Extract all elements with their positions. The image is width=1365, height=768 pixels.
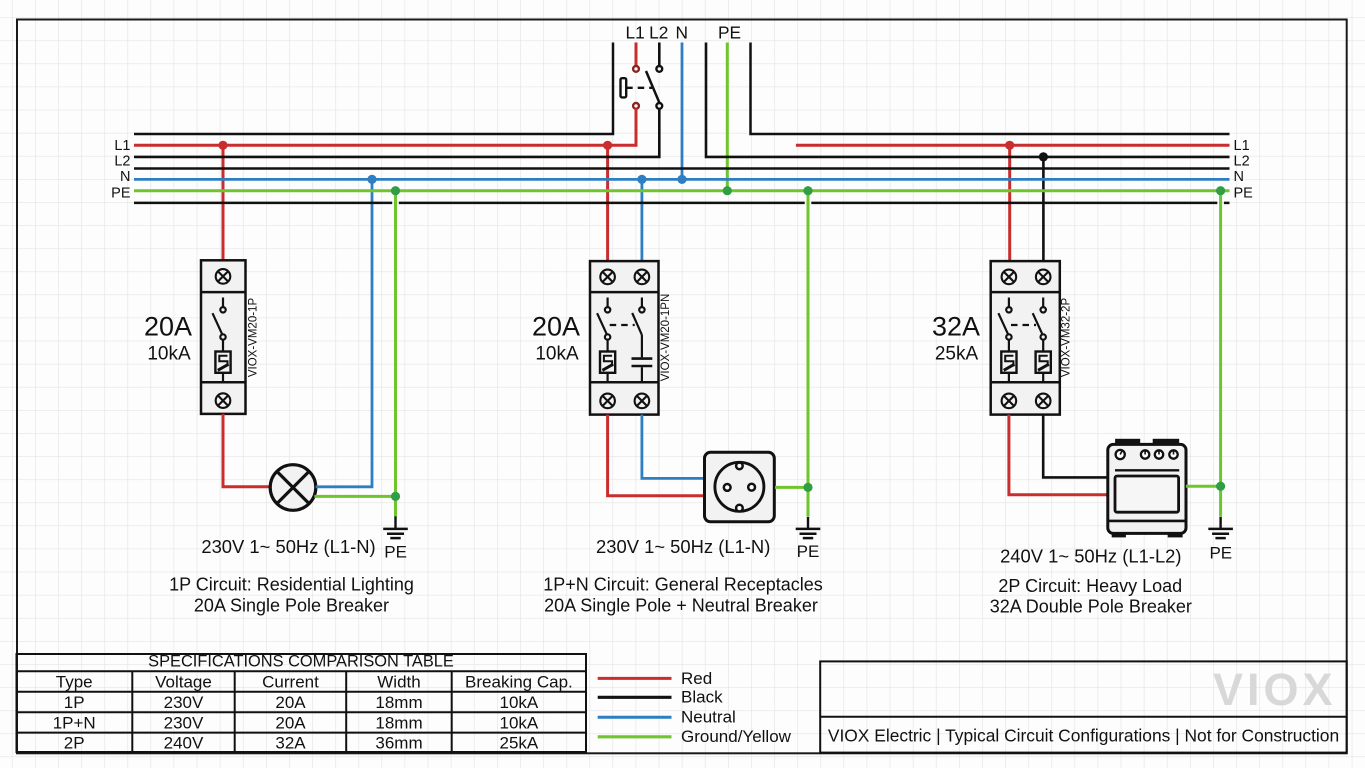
wire L2 bus left (black) [134,109,659,157]
junction PE to circuit 2 ground [803,186,812,195]
wire L2 supply drop (black) [658,43,661,66]
wire PE bus (green, full width) [134,189,1230,192]
svg-text:L2: L2 [649,23,668,43]
wire black rail lower (full width) [134,202,392,205]
wire PE drop circuit 1 (green) [394,191,397,517]
svg-text:2P: 2P [64,734,85,753]
breaker CB1 bottom section divider [201,381,246,384]
lamp E1 [270,465,316,511]
main isolator switch Q0 pole L2 terminal top [656,66,662,72]
breaker CB3 bottom section divider [991,381,1060,384]
wire stove to PE (green) [1186,485,1221,488]
wire CB1 output to lamp (red) [223,414,271,487]
svg-text:1P: 1P [64,693,85,712]
svg-text:36mm: 36mm [375,734,422,753]
wire L1 bus right (red) [796,144,1230,147]
table frame [17,654,587,752]
breaker CB2 body [590,261,659,415]
svg-text:Width: Width [377,673,420,692]
wire N supply drop (blue) [681,43,684,180]
legend swatch Black [598,696,672,699]
svg-text:18mm: 18mm [375,693,422,712]
breaker CB2 terminal top N [635,270,650,285]
ground symbol circuit 2 [796,517,821,538]
junction PE supply entry [723,186,732,195]
svg-text:VIOX Electric | Typical Circui: VIOX Electric | Typical Circuit Configur… [828,726,1339,746]
svg-text:10kA: 10kA [147,344,191,365]
wire lamp to PE (green) [314,495,395,498]
svg-text:10kA: 10kA [500,693,539,712]
junction PE to circuit 1 ground [391,186,400,195]
svg-text:N: N [1234,169,1244,185]
title block frame [820,661,1346,752]
svg-text:230V 1~ 50Hz (L1-N): 230V 1~ 50Hz (L1-N) [201,536,375,557]
svg-text:10kA: 10kA [535,344,579,365]
svg-text:L1: L1 [114,138,130,154]
legend swatch Red [598,677,672,680]
svg-text:20A: 20A [275,713,306,732]
svg-text:PE: PE [111,186,131,202]
breaker CB2 bottom section divider [590,381,659,384]
breaker CB3 pole linkage (dashed) [1011,324,1036,326]
svg-text:240V 1~ 50Hz (L1-L2): 240V 1~ 50Hz (L1-L2) [1000,546,1181,567]
junction socket PE tee [803,483,812,492]
wire black rail upper-right segment [751,43,1230,135]
junction N supply entry [677,175,686,184]
breaker CB3 terminal bottom L2 [1036,394,1051,409]
breaker CB2 N-pole contact mechanism [632,298,653,383]
legend swatch Ground/Yellow [598,735,672,738]
svg-text:Type: Type [56,673,93,692]
wire L1 drop to CB3 (red) [1008,145,1011,261]
wire L2 bus right (black) [706,43,1230,157]
breaker CB1 contact mechanism [213,298,226,352]
svg-text:32A: 32A [275,734,306,753]
svg-text:L1: L1 [625,23,644,43]
breaker CB1 top section divider [201,291,246,294]
breaker CB1 body [201,260,246,414]
wire black rail upper-left segment [134,43,613,135]
svg-text:N: N [120,169,130,185]
svg-text:20A: 20A [532,312,580,342]
breaker CB2 terminal bottom L [600,394,615,409]
svg-text:20A Single Pole Breaker: 20A Single Pole Breaker [194,596,389,616]
svg-text:25kA: 25kA [500,734,539,753]
svg-text:1P+N: 1P+N [53,713,96,732]
wire CB2 N output to socket (blue) [642,415,705,479]
wire L1 drop to CB2 (red) [606,145,609,261]
breaker CB1 terminal bottom [216,393,231,408]
svg-text:10kA: 10kA [500,713,539,732]
svg-text:230V 1~ 50Hz (L1-N): 230V 1~ 50Hz (L1-N) [596,536,770,557]
svg-text:230V: 230V [164,693,204,712]
main isolator switch Q0 pole L1 terminal top [633,66,639,72]
svg-text:Breaking Cap.: Breaking Cap. [465,673,573,692]
junction stove PE tee [1216,482,1225,491]
main isolator switch Q0 linkage (dashed) [626,87,652,89]
svg-text:PE: PE [797,542,820,561]
wire N drop to CB2 (blue) [641,179,644,261]
stove E3 knobs [1116,450,1178,459]
breaker CB2 top section divider [590,291,659,294]
svg-text:VIOX-VM20-1P: VIOX-VM20-1P [248,298,260,378]
wire N bus (blue, full width) [134,178,1230,181]
table header row [56,673,573,692]
table row 2P [64,734,539,753]
svg-text:20A: 20A [144,312,192,342]
svg-text:SPECIFICATIONS COMPARISON TABL: SPECIFICATIONS COMPARISON TABLE [148,653,454,671]
wire CB3 L2 output to stove (black) [1043,415,1108,478]
breaker CB3 body [991,261,1060,415]
stove E3 drawer line [1108,520,1186,523]
svg-text:Current: Current [262,673,319,692]
breaker CB2 terminal top L [600,270,615,285]
legend swatch Neutral [598,716,672,719]
svg-text:PE: PE [718,23,741,43]
breaker CB2 pole linkage (dashed) [610,324,635,326]
junction L1 to breaker CB3 [1005,141,1014,150]
svg-text:L2: L2 [1234,153,1250,169]
main isolator switch Q0 pole L2 terminal bottom [656,103,662,109]
wire L1 drop to CB1 (red) [222,145,225,260]
breaker CB3 terminal bottom L1 [1002,394,1017,409]
wire socket to PE (green) [775,486,808,489]
socket X1 (schuko receptacle) [705,452,775,522]
svg-text:2P Circuit: Heavy Load: 2P Circuit: Heavy Load [998,576,1182,596]
stove E3 body [1108,439,1186,536]
ground symbol circuit 3 [1208,517,1233,538]
breaker CB3 pole-1 trip unit [1001,352,1016,383]
breaker CB2 terminal bottom N [635,394,650,409]
svg-text:20A: 20A [275,693,306,712]
svg-text:L1: L1 [1234,138,1250,154]
ground symbol circuit 1 [383,516,408,538]
stove E3 oven door [1115,476,1179,512]
breaker CB1 thermal-magnetic trip unit [215,352,230,383]
main isolator switch Q0 handle [621,78,627,97]
breaker CB1 terminal top [216,269,231,284]
junction N to breaker CB2 [637,175,646,184]
svg-text:1P Circuit: Residential Lighti: 1P Circuit: Residential Lighting [169,575,414,595]
svg-text:N: N [676,23,688,43]
svg-text:PE: PE [1234,186,1254,202]
svg-text:1P+N Circuit: General Receptac: 1P+N Circuit: General Receptacles [543,575,823,595]
breaker CB3 pole-2 trip unit [1036,352,1051,383]
breaker CB3 terminal top L1 [1002,270,1017,285]
breaker CB3 terminal top L2 [1036,270,1051,285]
svg-text:230V: 230V [164,713,204,732]
wire CB2 L output to socket (red) [608,415,705,496]
wire black rail middle (full width) [134,167,1230,170]
junction L2 to breaker CB3 [1039,152,1048,161]
breaker CB2 L-pole trip unit [600,352,615,383]
svg-text:Voltage: Voltage [155,673,212,692]
wire L2 drop to CB3 (black) [1042,157,1045,261]
stove E3 cooktop divider [1115,469,1179,471]
svg-text:18mm: 18mm [375,713,422,732]
svg-text:25kA: 25kA [935,344,979,365]
svg-text:Ground/Yellow: Ground/Yellow [681,727,792,746]
svg-text:PE: PE [1209,543,1232,562]
svg-text:240V: 240V [164,734,204,753]
svg-text:32A: 32A [932,312,980,342]
main isolator switch Q0 pole L1 terminal bottom [633,103,639,109]
svg-text:VIOX-VM32-2P: VIOX-VM32-2P [1061,298,1073,378]
junction PE to circuit 3 ground [1216,186,1225,195]
junction N to lamp circuit [367,175,376,184]
junction L1 to breaker CB2 [603,141,612,150]
svg-text:20A Single Pole + Neutral Brea: 20A Single Pole + Neutral Breaker [544,596,818,616]
table row 1P+N [53,713,539,732]
breaker CB3 pole-2 contact mechanism [1033,298,1046,352]
wire N drop to lamp (blue) [316,179,372,486]
wire PE drop circuit 2 (green) [807,191,810,517]
svg-text:VIOX: VIOX [1213,664,1337,715]
breaker CB2 L-pole contact mechanism [597,298,610,352]
table row 1P [64,693,539,712]
wire L1 bus left (red) [134,109,636,146]
svg-text:Red: Red [681,669,712,688]
breaker CB3 top section divider [991,291,1060,294]
svg-text:L2: L2 [114,153,130,169]
wire CB3 L1 output to stove (red) [1009,415,1108,495]
main isolator switch Q0 blade [646,71,659,103]
wire PE drop circuit 3 (green) [1219,191,1222,517]
junction lamp PE tee [391,492,400,501]
svg-text:VIOX-VM20-1PN: VIOX-VM20-1PN [660,294,672,382]
svg-text:Neutral: Neutral [681,708,736,727]
svg-text:Black: Black [681,688,723,707]
junction L1 to breaker CB1 [218,141,227,150]
wire L1 supply drop (red) [635,43,638,66]
breaker CB3 pole-1 contact mechanism [998,298,1011,352]
svg-text:32A Double Pole Breaker: 32A Double Pole Breaker [990,597,1192,617]
wire PE supply drop (green) [726,43,729,191]
svg-text:PE: PE [384,542,407,561]
